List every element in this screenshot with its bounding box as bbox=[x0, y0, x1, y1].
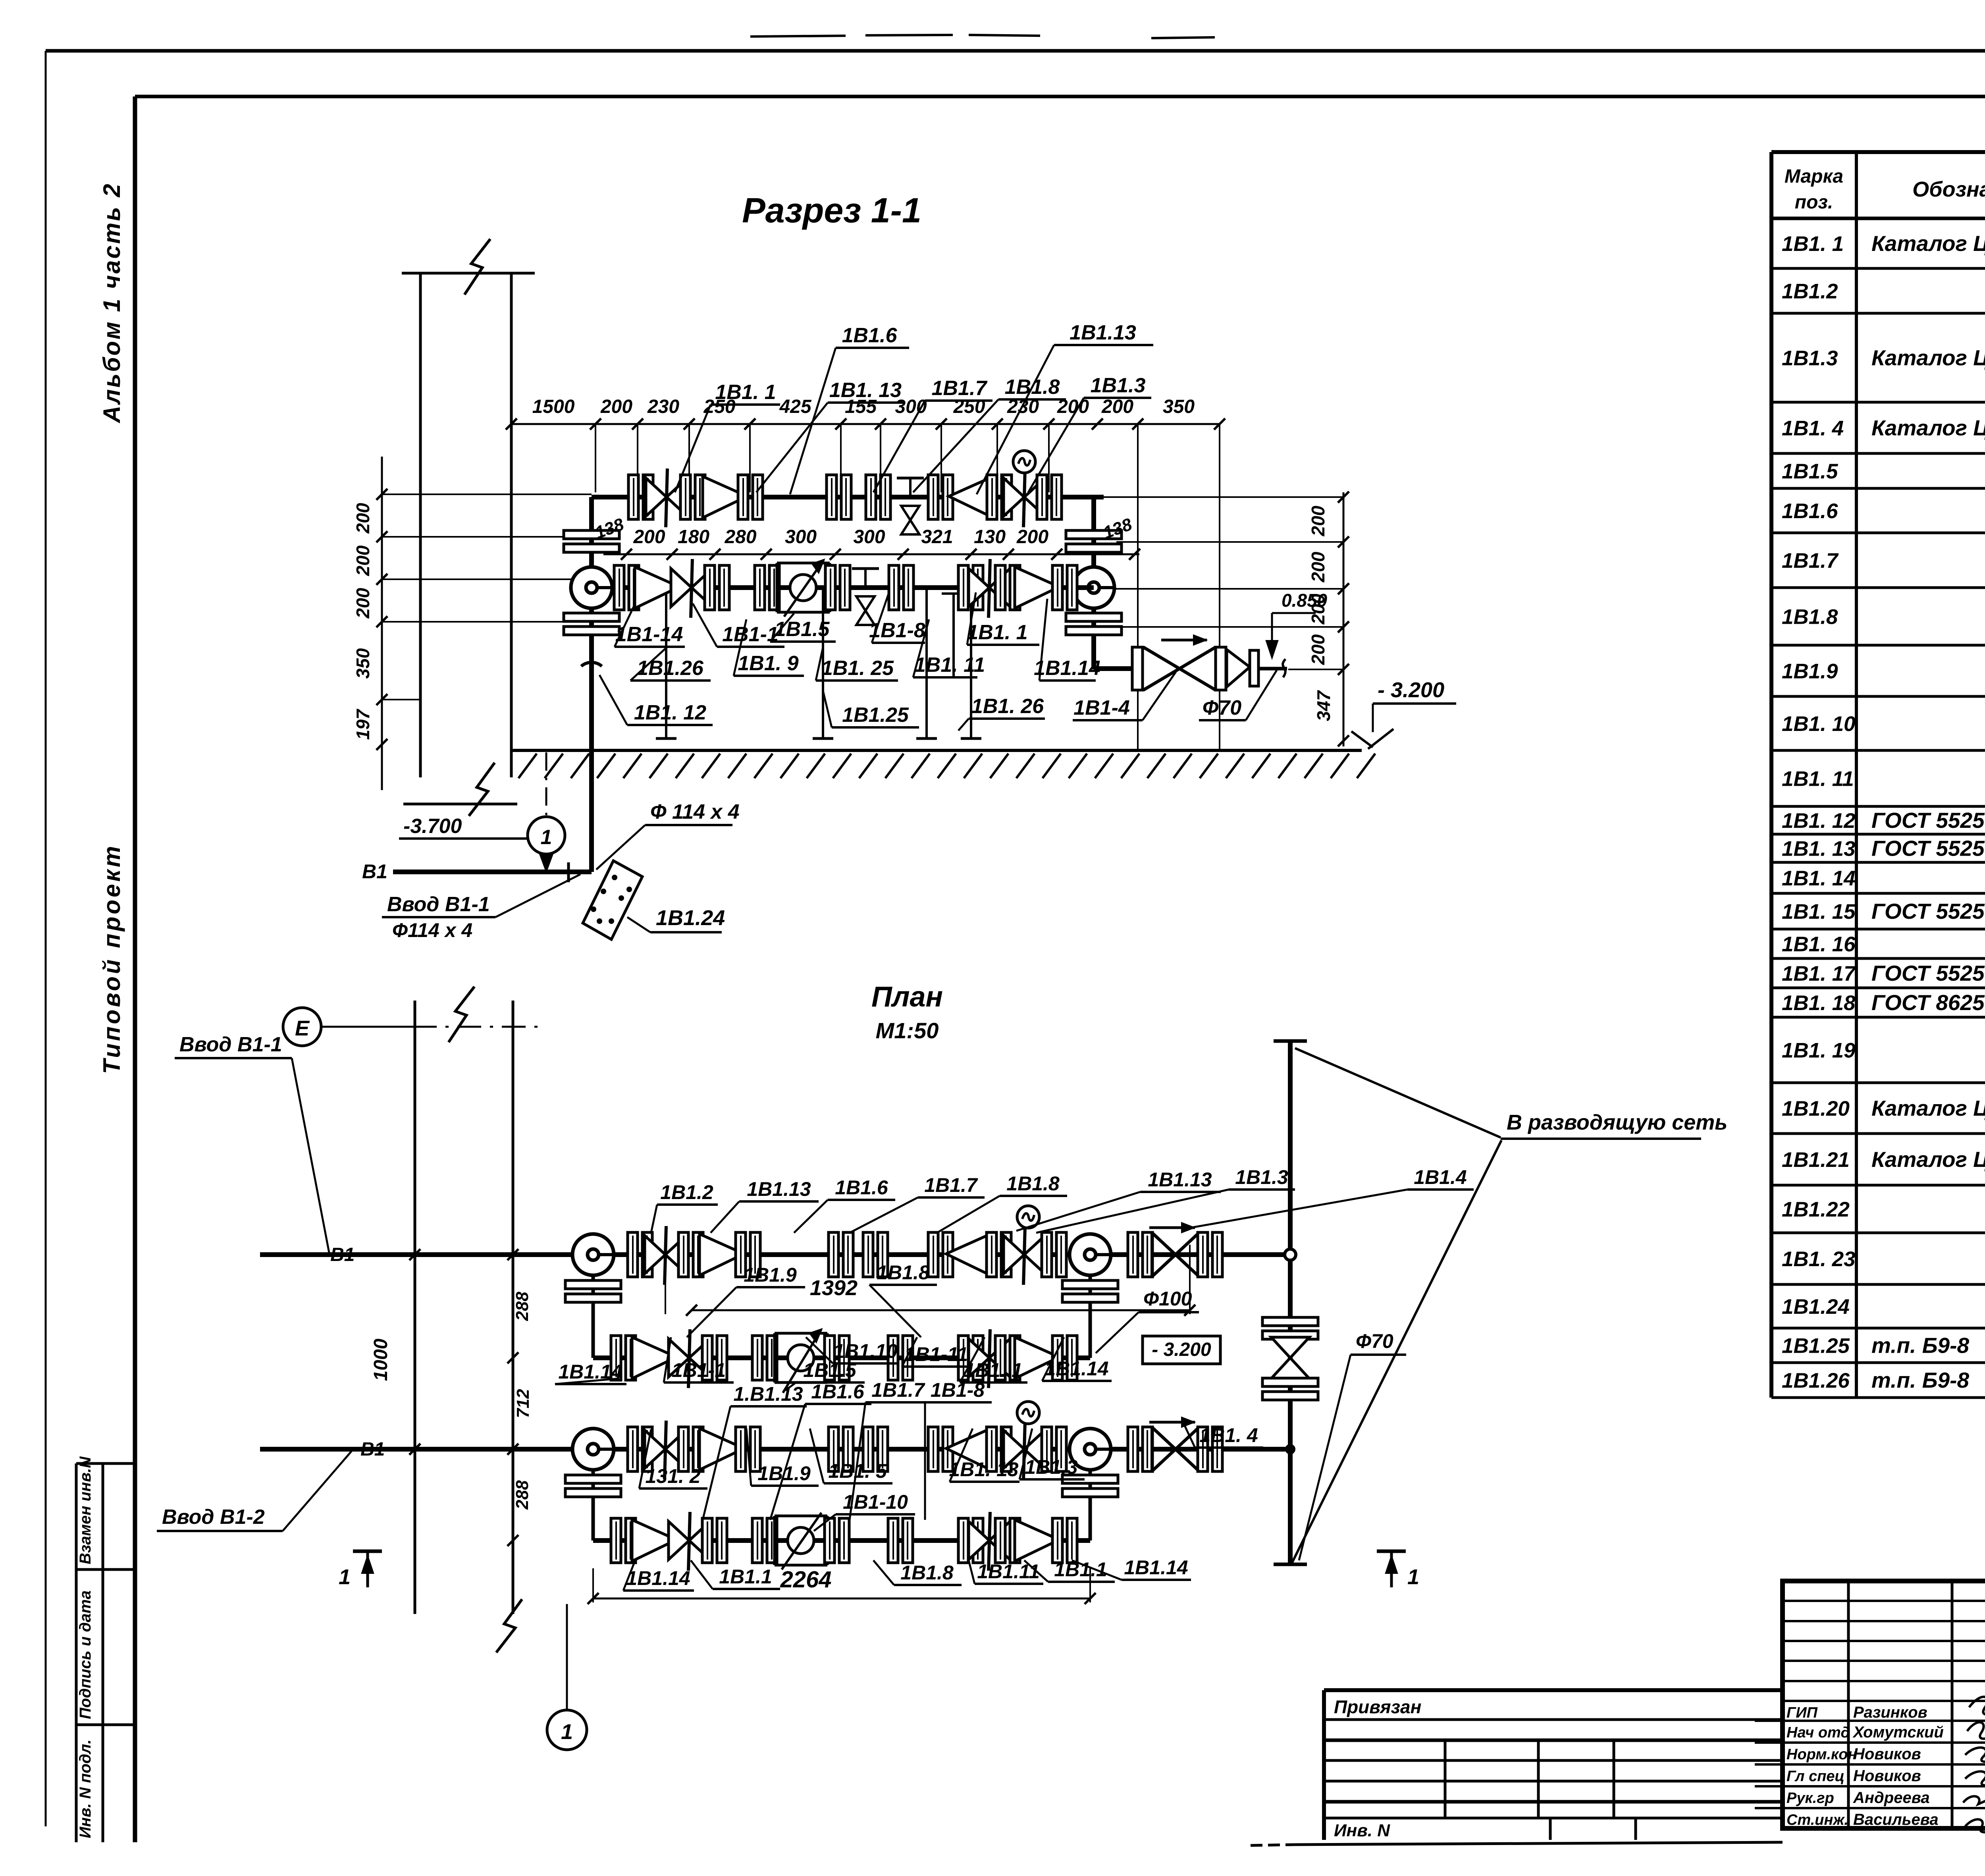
svg-text:1В1.3: 1В1.3 bbox=[1235, 1166, 1288, 1188]
svg-text:1В1.7: 1В1.7 bbox=[924, 1174, 978, 1196]
svg-text:Взамен инв.N: Взамен инв.N bbox=[77, 1456, 94, 1564]
svg-text:1В1.10: 1В1.10 bbox=[833, 1340, 897, 1362]
svg-text:Каталог ЦКБА: Каталог ЦКБА bbox=[1871, 1096, 1985, 1120]
svg-text:200: 200 bbox=[353, 545, 373, 576]
svg-text:1: 1 bbox=[1407, 1565, 1419, 1589]
svg-text:1В1.8: 1В1.8 bbox=[1006, 1172, 1060, 1195]
svg-text:Марка: Марка bbox=[1785, 166, 1843, 187]
svg-text:Инв. N подл.: Инв. N подл. bbox=[77, 1739, 94, 1838]
svg-text:1В1.21: 1В1.21 bbox=[1782, 1148, 1850, 1172]
svg-text:Ввод В1-1: Ввод В1-1 bbox=[179, 1033, 282, 1056]
svg-text:Ф70: Ф70 bbox=[1356, 1330, 1393, 1352]
svg-text:1: 1 bbox=[561, 1720, 573, 1744]
svg-text:1В1. 4: 1В1. 4 bbox=[1199, 1424, 1258, 1446]
svg-text:1В1. 12: 1В1. 12 bbox=[1782, 809, 1856, 833]
svg-text:1В1.8: 1В1.8 bbox=[1782, 605, 1838, 629]
svg-text:1В1. 13: 1В1. 13 bbox=[1782, 837, 1856, 861]
svg-text:1В1.3: 1В1.3 bbox=[1025, 1456, 1078, 1478]
svg-text:1: 1 bbox=[541, 826, 552, 849]
svg-text:1В1. 18: 1В1. 18 bbox=[1782, 991, 1856, 1015]
svg-text:ГОСТ 5525-61 **: ГОСТ 5525-61 ** bbox=[1871, 899, 1985, 924]
svg-text:1В1. 17: 1В1. 17 bbox=[1782, 962, 1856, 985]
svg-text:1В1. 1: 1В1. 1 bbox=[964, 1359, 1022, 1381]
svg-text:1В1-8: 1В1-8 bbox=[931, 1379, 985, 1401]
svg-text:1В1.3: 1В1.3 bbox=[1782, 347, 1838, 370]
svg-text:1В1-14: 1В1-14 bbox=[615, 623, 683, 646]
svg-text:1В1. 1: 1В1. 1 bbox=[715, 381, 776, 404]
svg-text:Андреева: Андреева bbox=[1853, 1789, 1930, 1807]
svg-text:Ст.инж.: Ст.инж. bbox=[1786, 1812, 1848, 1828]
svg-text:1В1.7: 1В1.7 bbox=[1782, 549, 1839, 573]
svg-text:1В1.2: 1В1.2 bbox=[1782, 280, 1838, 303]
svg-text:1В1.13: 1В1.13 bbox=[747, 1178, 811, 1200]
svg-text:200: 200 bbox=[1308, 634, 1328, 665]
svg-text:1В1. 26: 1В1. 26 bbox=[971, 695, 1044, 718]
svg-text:1В1.8: 1В1.8 bbox=[1005, 376, 1060, 399]
svg-text:- 3.200: - 3.200 bbox=[1378, 678, 1444, 702]
svg-text:Разрез 1-1: Разрез 1-1 bbox=[742, 191, 921, 230]
svg-text:200: 200 bbox=[600, 396, 632, 417]
svg-text:1В1.26: 1В1.26 bbox=[637, 657, 704, 680]
svg-text:1В1. 10: 1В1. 10 bbox=[1782, 712, 1856, 736]
svg-text:0.850: 0.850 bbox=[1282, 590, 1328, 611]
svg-text:ГИП: ГИП bbox=[1786, 1704, 1818, 1721]
svg-text:1В1.3: 1В1.3 bbox=[1091, 374, 1146, 397]
svg-text:1В1.1: 1В1.1 bbox=[719, 1566, 772, 1588]
svg-text:712: 712 bbox=[513, 1389, 533, 1418]
svg-text:Каталог ЦКБА: Каталог ЦКБА bbox=[1871, 1147, 1985, 1172]
svg-text:1В1.5: 1В1.5 bbox=[1782, 460, 1839, 483]
svg-text:1В1.24: 1В1.24 bbox=[1782, 1295, 1850, 1319]
svg-text:1В1.9: 1В1.9 bbox=[744, 1264, 797, 1286]
svg-text:280: 280 bbox=[724, 526, 756, 548]
svg-text:1В1. 13: 1В1. 13 bbox=[829, 379, 902, 402]
svg-text:288: 288 bbox=[513, 1292, 532, 1321]
svg-text:1В1.6: 1В1.6 bbox=[835, 1176, 888, 1199]
svg-text:1В1.20: 1В1.20 bbox=[1782, 1097, 1850, 1120]
svg-text:Ф114 х 4: Ф114 х 4 bbox=[392, 919, 472, 941]
svg-text:1В1.14: 1В1.14 bbox=[1034, 657, 1100, 680]
svg-text:200: 200 bbox=[1016, 526, 1048, 548]
svg-text:т.п. Б9-8: т.п. Б9-8 bbox=[1871, 1333, 1969, 1358]
svg-text:Альбом 1 часть 2: Альбом 1 часть 2 bbox=[98, 182, 125, 424]
svg-text:2264: 2264 bbox=[780, 1567, 831, 1593]
svg-text:1В1.22: 1В1.22 bbox=[1782, 1198, 1850, 1221]
svg-text:ГОСТ 8625-77 *Е: ГОСТ 8625-77 *Е bbox=[1871, 990, 1985, 1015]
svg-text:1В1-1: 1В1-1 bbox=[722, 623, 779, 646]
svg-text:поз.: поз. bbox=[1795, 192, 1833, 213]
svg-text:350: 350 bbox=[353, 648, 373, 679]
svg-text:1В1. 25: 1В1. 25 bbox=[821, 657, 894, 680]
svg-text:Норм.кон: Норм.кон bbox=[1786, 1746, 1857, 1763]
svg-text:300: 300 bbox=[785, 526, 817, 548]
svg-text:1В1. 23: 1В1. 23 bbox=[1782, 1247, 1856, 1271]
svg-text:1В1.6: 1В1.6 bbox=[842, 324, 898, 347]
svg-text:1В1-4: 1В1-4 bbox=[1073, 696, 1130, 719]
svg-text:1В1.14: 1В1.14 bbox=[1124, 1556, 1188, 1579]
svg-text:1В1.8: 1В1.8 bbox=[900, 1562, 954, 1584]
svg-text:В разводящую сеть: В разводящую сеть bbox=[1507, 1111, 1727, 1134]
svg-text:200: 200 bbox=[633, 526, 665, 548]
svg-text:План: План bbox=[871, 981, 943, 1013]
svg-text:ГОСТ 5525-61 **: ГОСТ 5525-61 ** bbox=[1871, 808, 1985, 833]
svg-text:E: E bbox=[295, 1016, 310, 1040]
svg-text:131. 2: 131. 2 bbox=[645, 1465, 700, 1487]
svg-text:ГОСТ 5525-61 **: ГОСТ 5525-61 ** bbox=[1871, 836, 1985, 861]
svg-text:1В1. 19: 1В1. 19 bbox=[1782, 1039, 1856, 1062]
svg-text:1В1.14: 1В1.14 bbox=[1045, 1357, 1108, 1380]
svg-text:В1: В1 bbox=[360, 1439, 385, 1460]
svg-text:Новиков: Новиков bbox=[1853, 1767, 1921, 1785]
svg-text:Привязан: Привязан bbox=[1334, 1697, 1421, 1717]
svg-text:1В1-10: 1В1-10 bbox=[843, 1491, 908, 1513]
svg-text:1000: 1000 bbox=[370, 1338, 391, 1381]
svg-text:200: 200 bbox=[1308, 505, 1328, 536]
svg-text:Хомутский: Хомутский bbox=[1852, 1724, 1944, 1741]
svg-text:1В1. 16: 1В1. 16 bbox=[1782, 933, 1856, 956]
svg-text:1В1.13: 1В1.13 bbox=[1070, 321, 1136, 344]
svg-text:Васильева: Васильева bbox=[1853, 1811, 1939, 1828]
svg-text:230: 230 bbox=[647, 396, 679, 417]
svg-text:-3.700: -3.700 bbox=[403, 815, 462, 838]
svg-text:Разинков: Разинков bbox=[1853, 1704, 1927, 1721]
svg-text:М1:50: М1:50 bbox=[876, 1018, 939, 1043]
svg-text:1В1. 13: 1В1. 13 bbox=[949, 1458, 1018, 1481]
svg-text:1В1.2: 1В1.2 bbox=[660, 1181, 713, 1203]
svg-text:Каталог ЦКБА: Каталог ЦКБА bbox=[1871, 416, 1985, 440]
svg-text:200: 200 bbox=[353, 588, 373, 619]
svg-text:200: 200 bbox=[1308, 551, 1328, 582]
svg-text:1В1.4: 1В1.4 bbox=[1414, 1166, 1467, 1188]
svg-text:1В1. 5: 1В1. 5 bbox=[828, 1460, 887, 1482]
svg-text:1В1. 1: 1В1. 1 bbox=[967, 621, 1027, 644]
svg-text:1В1. 1: 1В1. 1 bbox=[1782, 232, 1844, 256]
svg-text:- 3.200: - 3.200 bbox=[1152, 1339, 1211, 1360]
svg-text:200: 200 bbox=[1101, 396, 1133, 417]
svg-text:Ф70: Ф70 bbox=[1203, 696, 1242, 719]
svg-text:350: 350 bbox=[1163, 396, 1195, 417]
svg-text:Новиков: Новиков bbox=[1853, 1745, 1921, 1763]
svg-text:ГОСТ 5525-61 **: ГОСТ 5525-61 ** bbox=[1871, 961, 1985, 985]
svg-text:1В1.14: 1В1.14 bbox=[626, 1567, 690, 1589]
svg-text:1В1-11: 1В1-11 bbox=[904, 1343, 968, 1365]
svg-text:180: 180 bbox=[678, 526, 709, 548]
svg-text:1В1.11: 1В1.11 bbox=[977, 1560, 1040, 1583]
svg-text:Ввод В1-1: Ввод В1-1 bbox=[387, 893, 490, 916]
svg-text:Нач отд: Нач отд bbox=[1786, 1724, 1850, 1741]
svg-text:Инв. N: Инв. N bbox=[1334, 1821, 1390, 1840]
svg-text:1В1. 11: 1В1. 11 bbox=[914, 654, 985, 677]
svg-text:Ф100: Ф100 bbox=[1143, 1288, 1192, 1310]
svg-text:1В1.25: 1В1.25 bbox=[1782, 1334, 1850, 1358]
svg-text:1В1. 9: 1В1. 9 bbox=[738, 652, 798, 675]
svg-text:1В1.25: 1В1.25 bbox=[842, 704, 909, 727]
svg-text:197: 197 bbox=[353, 708, 373, 740]
svg-text:1В1.7: 1В1.7 bbox=[932, 377, 988, 400]
svg-text:1500: 1500 bbox=[532, 396, 575, 417]
svg-text:425: 425 bbox=[779, 396, 811, 417]
svg-text:1В1.6: 1В1.6 bbox=[811, 1380, 865, 1403]
svg-text:Каталог ЦКБА: Каталог ЦКБА bbox=[1871, 345, 1985, 370]
svg-text:1В1.24: 1В1.24 bbox=[656, 906, 725, 930]
svg-text:321: 321 bbox=[921, 526, 953, 548]
svg-text:Подпись и дата: Подпись и дата bbox=[77, 1591, 94, 1719]
svg-text:300: 300 bbox=[853, 526, 885, 548]
svg-text:1В1. 4: 1В1. 4 bbox=[1782, 417, 1844, 440]
svg-text:1В1.9: 1В1.9 bbox=[1782, 660, 1838, 683]
svg-text:1: 1 bbox=[339, 1565, 351, 1589]
svg-text:т.п. Б9-8: т.п. Б9-8 bbox=[1871, 1368, 1969, 1392]
svg-text:1В1. 11: 1В1. 11 bbox=[1782, 767, 1854, 791]
svg-text:1В1. 14: 1В1. 14 bbox=[1782, 867, 1856, 890]
svg-text:130: 130 bbox=[974, 526, 1006, 548]
svg-text:200: 200 bbox=[353, 503, 373, 534]
svg-text:1В1.5: 1В1.5 bbox=[775, 618, 830, 641]
svg-text:1В1.7: 1В1.7 bbox=[871, 1379, 925, 1401]
svg-text:В1: В1 bbox=[362, 860, 387, 883]
svg-text:1В1.9: 1В1.9 bbox=[757, 1462, 811, 1485]
svg-text:1В1.13: 1В1.13 bbox=[1148, 1168, 1212, 1191]
svg-text:Типовой проект: Типовой проект bbox=[98, 844, 125, 1074]
svg-text:347: 347 bbox=[1313, 690, 1334, 721]
svg-text:1В1.1: 1В1.1 bbox=[1054, 1558, 1107, 1581]
svg-text:Каталог ЦКБА: Каталог ЦКБА bbox=[1871, 231, 1985, 256]
svg-text:1В1-1: 1В1-1 bbox=[672, 1359, 726, 1381]
svg-text:Ф 114 х 4: Ф 114 х 4 bbox=[650, 800, 740, 823]
svg-text:1В1.8: 1В1.8 bbox=[877, 1261, 930, 1284]
svg-text:1В1.26: 1В1.26 bbox=[1782, 1369, 1850, 1392]
svg-text:Гл спец: Гл спец bbox=[1786, 1768, 1844, 1785]
svg-text:288: 288 bbox=[513, 1480, 532, 1510]
svg-text:Обозначение: Обозначение bbox=[1912, 177, 1985, 201]
svg-text:Рук.гр: Рук.гр bbox=[1786, 1790, 1834, 1807]
svg-text:1В1.6: 1В1.6 bbox=[1782, 499, 1838, 523]
svg-text:В1: В1 bbox=[330, 1244, 355, 1265]
svg-text:1В1. 12: 1В1. 12 bbox=[634, 701, 706, 724]
svg-text:Ввод В1-2: Ввод В1-2 bbox=[162, 1506, 265, 1529]
svg-text:1В1. 15: 1В1. 15 bbox=[1782, 900, 1856, 924]
svg-text:1.В1.13: 1.В1.13 bbox=[733, 1383, 803, 1405]
svg-text:1392: 1392 bbox=[810, 1276, 858, 1300]
svg-text:1В1-8: 1В1-8 bbox=[869, 619, 925, 642]
